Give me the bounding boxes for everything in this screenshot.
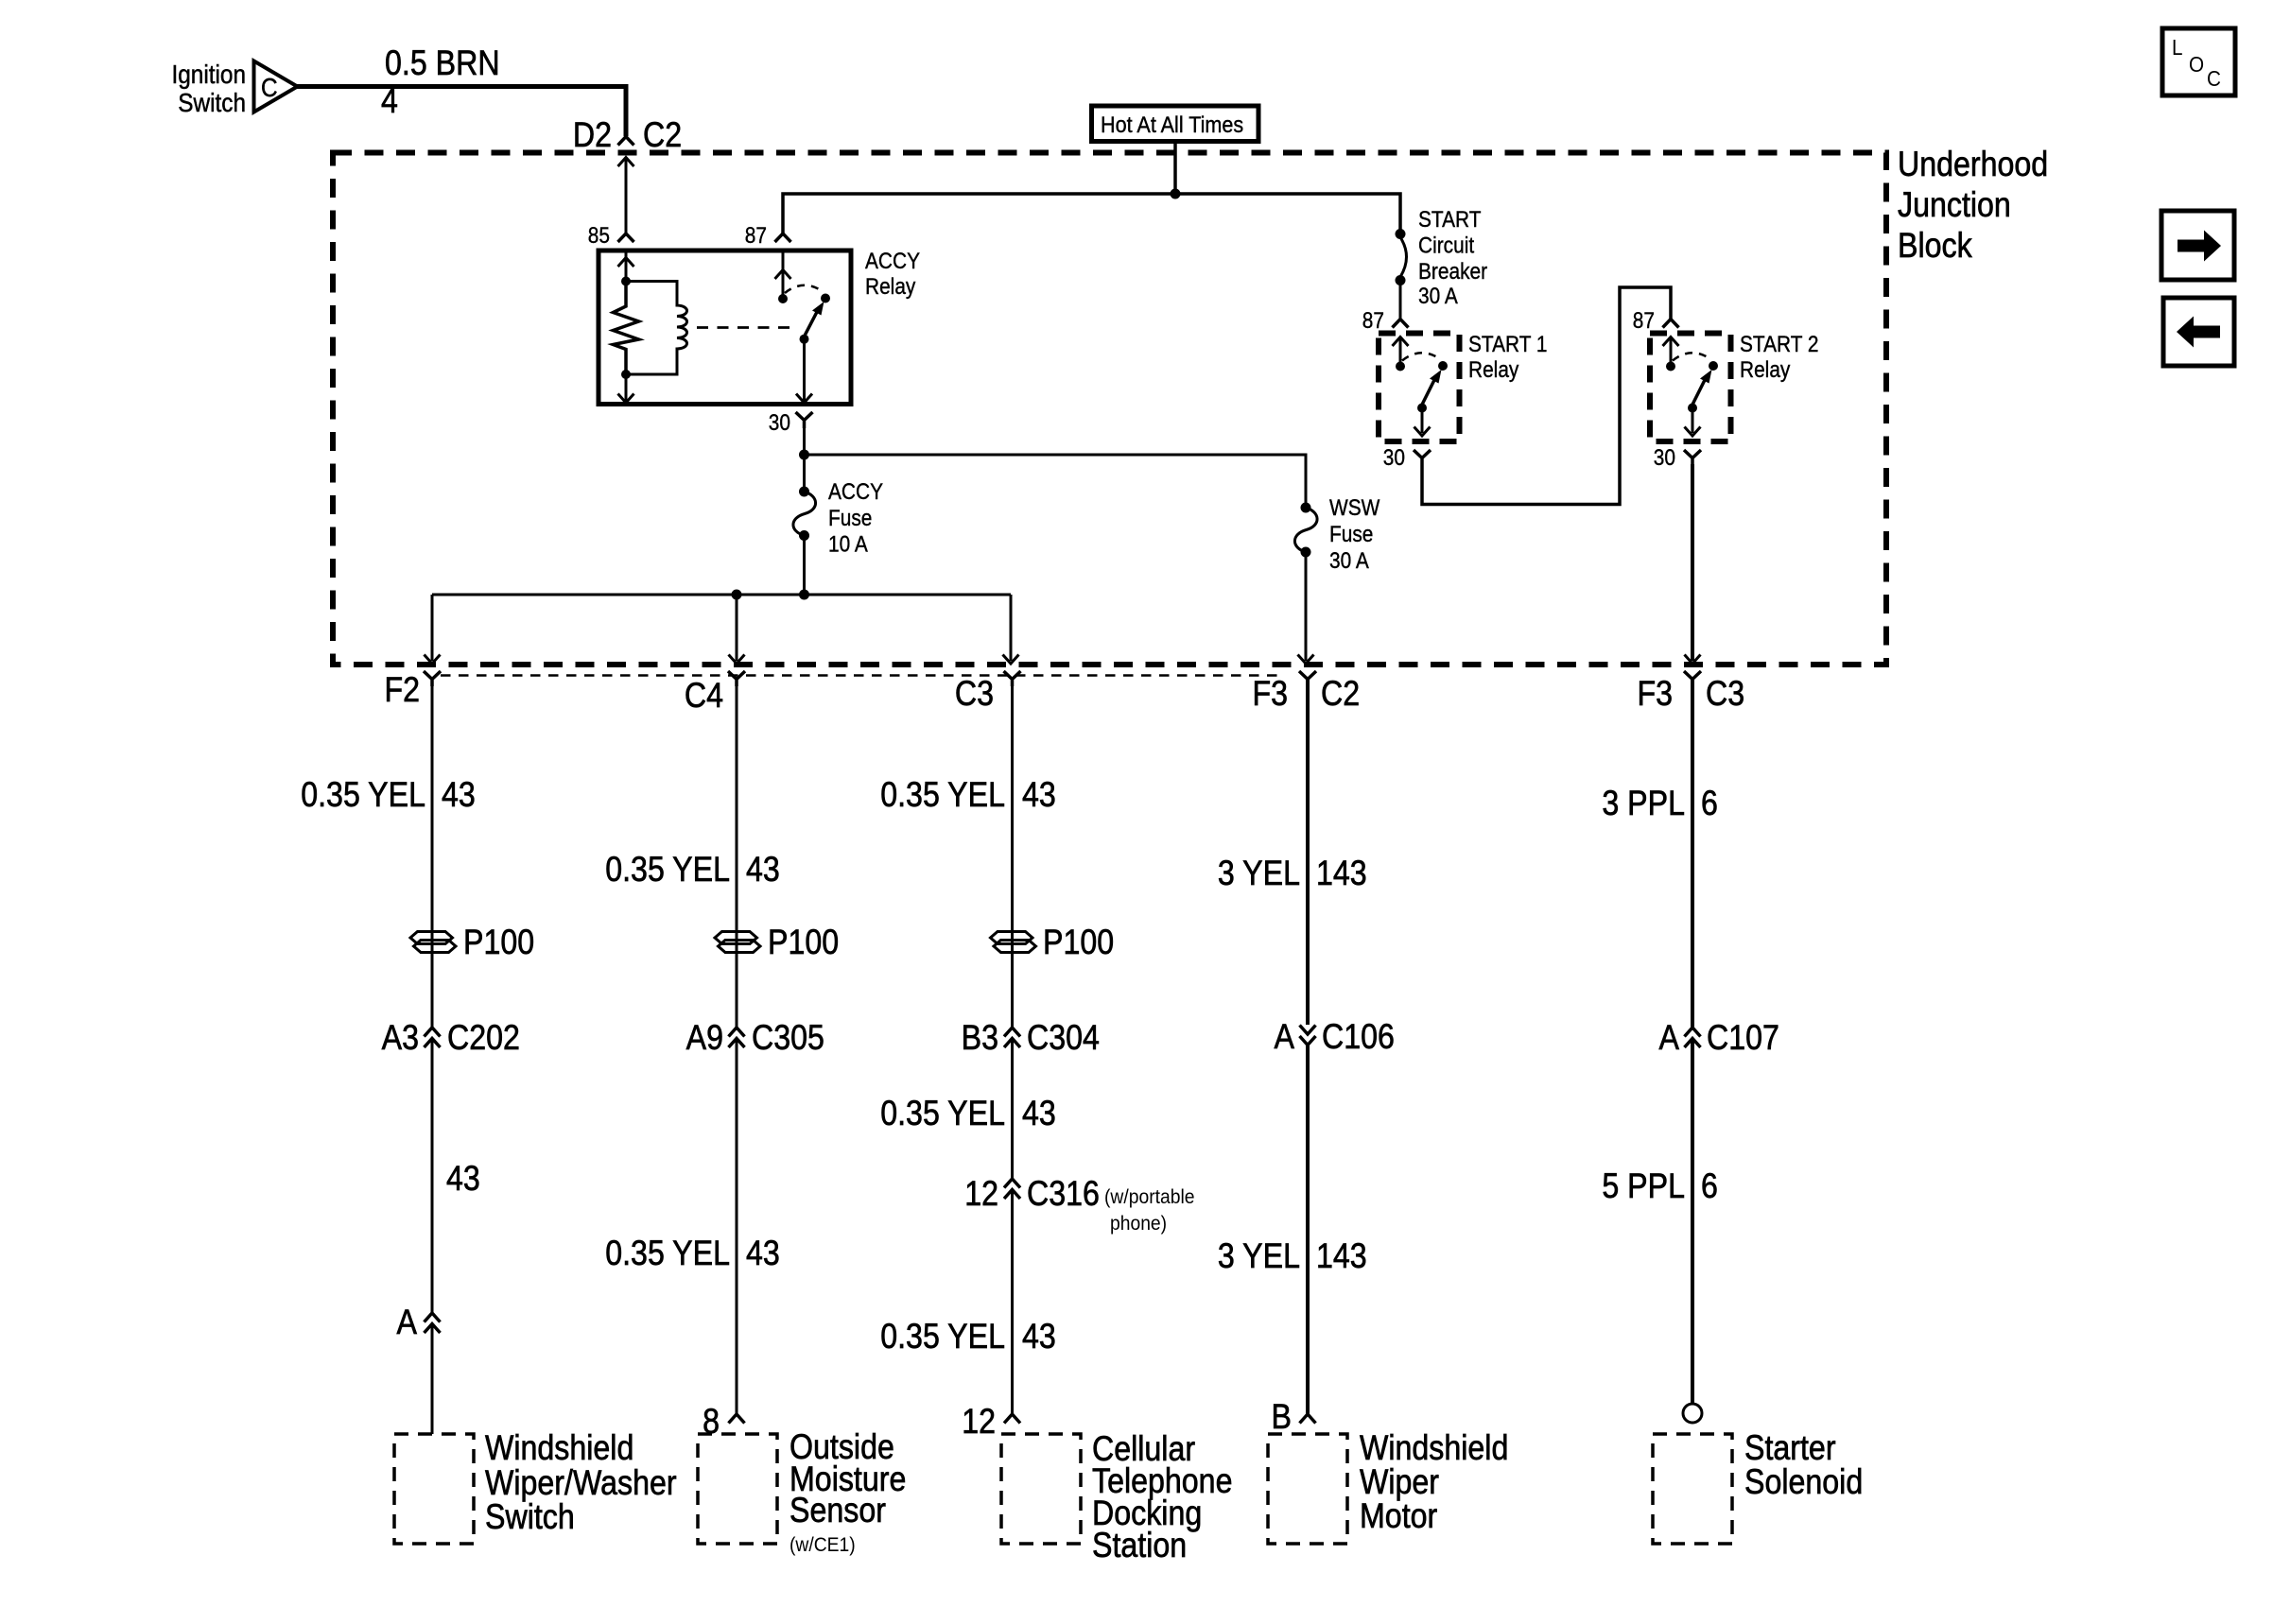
wire branch C3 with down arrow: [1010, 595, 1013, 661]
connector 30 half symbol (START2): [1684, 450, 1701, 464]
svg-text:Starter: Starter: [1744, 1429, 1836, 1468]
START1 pin 87 internal arrow up: [1399, 337, 1402, 367]
label F3 (C3): [1637, 675, 1673, 714]
label 43 (col1): [442, 776, 476, 815]
label 87 (START 1): [1362, 308, 1384, 334]
svg-text:0.5 BRN: 0.5 BRN: [385, 44, 500, 83]
svg-text:Relay: Relay: [1740, 357, 1791, 383]
label C4: [685, 677, 723, 716]
svg-text:43: 43: [1022, 1095, 1056, 1133]
junction dot distribution center: [799, 590, 809, 600]
svg-text:Sensor: Sensor: [789, 1492, 886, 1530]
label F3 (C2): [1252, 675, 1288, 714]
svg-text:B3: B3: [962, 1019, 998, 1058]
svg-text:30 A: 30 A: [1329, 548, 1369, 574]
label C2: [643, 116, 682, 155]
svg-text:F3: F3: [1637, 675, 1673, 714]
wire 0.5 BRN ckt 4 from ignition switch: [297, 87, 626, 137]
label 85: [588, 223, 610, 249]
svg-text:C: C: [2207, 66, 2221, 91]
svg-text:10 A: 10 A: [828, 531, 868, 557]
connector F3/C3 half symbol: [1684, 671, 1701, 686]
svg-text:43: 43: [1022, 1318, 1056, 1356]
svg-text:C2: C2: [1321, 675, 1360, 714]
svg-text:C316: C316: [1027, 1175, 1100, 1214]
svg-text:O: O: [2189, 52, 2204, 77]
label 8: [703, 1403, 720, 1442]
ACCY fuse symbol: [799, 487, 809, 497]
svg-text:F3: F3: [1252, 675, 1288, 714]
connector C3 half symbol: [1004, 671, 1021, 686]
ACCY relay box: [599, 251, 851, 405]
svg-text:ACCY: ACCY: [828, 479, 883, 505]
connector A9/C305 double chevron: [729, 1028, 745, 1047]
relay switch pin 87 wire with up arrow: [782, 251, 785, 299]
wire breaker to START1 87: [1399, 281, 1402, 320]
connector F2 half symbol: [424, 671, 441, 686]
label 30 (START2): [1654, 445, 1675, 471]
dashed travel arc (START1 switch): [1402, 353, 1441, 360]
START1 contact dot 87: [1396, 362, 1405, 371]
svg-text:6: 6: [1701, 785, 1718, 823]
label Starter Solenoid: [1744, 1429, 1836, 1468]
connector 30 half symbol (START1): [1414, 450, 1431, 464]
svg-text:3 YEL: 3 YEL: [1218, 855, 1300, 893]
junction dot coil bottom: [621, 370, 631, 379]
cellular telephone docking station dashed box: [1001, 1434, 1081, 1544]
label C202: [447, 1019, 520, 1058]
wire from ACCY relay 30: [803, 428, 806, 492]
svg-text:12: 12: [964, 1175, 998, 1214]
label 43 (col1 lower): [446, 1160, 480, 1199]
svg-text:12: 12: [962, 1403, 996, 1442]
wire hot feed down from Hot At All Times: [1173, 142, 1177, 195]
svg-text:30 A: 30 A: [1418, 284, 1458, 309]
splice P100 (col3): [991, 932, 1036, 953]
label 87 (ACCY relay): [745, 223, 767, 249]
junction dot distribution left: [732, 590, 742, 600]
label F2: [384, 671, 420, 710]
svg-text:phone): phone): [1110, 1213, 1167, 1235]
label A9: [686, 1019, 723, 1058]
label 4: [381, 82, 398, 121]
windshield wiper motor dashed box: [1268, 1434, 1347, 1544]
dashed travel arc (START2 switch): [1673, 353, 1711, 360]
label Outside Moisture Sensor (w/CE1): [789, 1428, 894, 1467]
next-page arrow box: [2161, 211, 2234, 280]
label C107: [1707, 1019, 1779, 1058]
svg-text:WSW: WSW: [1329, 495, 1380, 521]
label C2 (wiper feed): [1321, 675, 1360, 714]
label 3 YEL (col4): [1218, 855, 1300, 893]
svg-text:87: 87: [745, 223, 767, 249]
wire fused ACCY distribution: [432, 594, 1011, 596]
switch pivot dot (START1): [1417, 404, 1427, 413]
svg-text:3 PPL: 3 PPL: [1602, 785, 1685, 823]
svg-text:0.35 YEL: 0.35 YEL: [605, 851, 730, 890]
svg-text:43: 43: [446, 1160, 480, 1199]
label 143 (col4): [1316, 855, 1367, 893]
label START 2 Relay: [1740, 332, 1819, 357]
svg-text:L: L: [2172, 35, 2183, 60]
switch contact dot 87: [778, 294, 788, 303]
wire column F3/C2 upper segment: [1306, 680, 1310, 1026]
label 3 PPL (col5): [1602, 785, 1685, 823]
svg-text:START: START: [1418, 207, 1482, 233]
svg-text:5 PPL: 5 PPL: [1602, 1167, 1685, 1206]
wire branch F2 with down arrow: [431, 595, 434, 661]
previous-page arrow box: [2163, 298, 2234, 366]
windshield wiper/washer switch dashed box: [394, 1434, 474, 1544]
splice P100 (col2): [715, 932, 760, 953]
svg-text:C2: C2: [643, 116, 682, 155]
svg-text:A9: A9: [686, 1019, 723, 1058]
svg-text:A: A: [1659, 1019, 1680, 1058]
START1 switch output wire with down arrow: [1421, 408, 1424, 434]
label START Circuit Breaker 30 A: [1418, 207, 1482, 233]
starter solenoid dashed box: [1653, 1434, 1732, 1544]
wire branch to WSW fuse: [805, 455, 1307, 508]
connector C4 half symbol: [728, 671, 745, 686]
svg-text:START 1: START 1: [1468, 332, 1548, 357]
svg-text:Fuse: Fuse: [828, 506, 872, 531]
svg-text:Station: Station: [1092, 1527, 1187, 1565]
svg-text:0.35 YEL: 0.35 YEL: [880, 776, 1005, 815]
switch arm with arrowhead (ACCY relay): [805, 311, 818, 337]
label C304: [1027, 1019, 1100, 1058]
outside moisture sensor dashed box: [698, 1434, 777, 1544]
label A (C106): [1275, 1018, 1295, 1057]
wire START2 30 down to block edge with arrow: [1691, 464, 1694, 661]
label 6 (col5 lower): [1701, 1167, 1718, 1206]
label 12 (docking station): [962, 1403, 996, 1442]
wire column C4 upper segment: [736, 680, 738, 1028]
svg-text:Circuit: Circuit: [1418, 233, 1475, 258]
svg-text:A3: A3: [382, 1019, 419, 1058]
svg-text:C202: C202: [447, 1019, 520, 1058]
svg-text:C107: C107: [1707, 1019, 1779, 1058]
svg-text:0.35 YEL: 0.35 YEL: [880, 1318, 1005, 1356]
label A (C107): [1659, 1019, 1680, 1058]
svg-text:Wiper: Wiper: [1360, 1463, 1439, 1502]
svg-text:143: 143: [1316, 1237, 1367, 1276]
switch arm with arrowhead (START2): [1692, 379, 1706, 405]
relay pin 85 internal arrow up: [625, 252, 628, 282]
svg-text:A: A: [1275, 1018, 1295, 1057]
junction dot hot feed: [1171, 189, 1181, 199]
ring terminal (starter solenoid): [1683, 1404, 1702, 1423]
wire START1 30 to START2 87: [1422, 287, 1671, 505]
svg-text:P100: P100: [768, 924, 839, 962]
relay coil (ACCY relay): [626, 282, 687, 375]
svg-text:Relay: Relay: [1468, 357, 1519, 383]
svg-text:Junction: Junction: [1898, 186, 2011, 225]
label 43 (col3 lower): [1022, 1318, 1056, 1356]
svg-text:43: 43: [746, 851, 780, 890]
label 12 (C316): [964, 1175, 998, 1214]
splice P100 (col1): [410, 932, 456, 953]
wire column F2 lower segment: [431, 1324, 434, 1434]
switch pivot dot (START2): [1688, 404, 1697, 413]
label P100 (col2): [768, 924, 839, 962]
connector 87 half symbol (START 1 relay): [1393, 320, 1409, 328]
label START 1 Relay: [1468, 332, 1548, 357]
svg-text:Wiper/Washer: Wiper/Washer: [485, 1464, 677, 1503]
connector F3/C2 half symbol: [1299, 671, 1316, 686]
label 87 (START 2): [1633, 308, 1655, 334]
connector A/C106 double chevron down: [1300, 1026, 1316, 1045]
START2 switch output wire with down arrow: [1692, 408, 1694, 434]
label ACCY Fuse 10 A: [828, 479, 883, 505]
svg-text:C3: C3: [1706, 675, 1744, 714]
svg-text:Windshield: Windshield: [1360, 1429, 1508, 1468]
svg-text:Switch: Switch: [178, 87, 246, 117]
connector 87 half symbol (ACCY relay): [775, 233, 791, 242]
label Windshield Wiper Motor: [1360, 1429, 1508, 1468]
svg-text:B: B: [1272, 1398, 1292, 1437]
wire ACCY fuse to distribution: [803, 536, 806, 596]
label 5 PPL (col5 lower): [1602, 1167, 1685, 1206]
svg-text:Solenoid: Solenoid: [1744, 1463, 1863, 1502]
label ACCY Relay: [865, 249, 920, 274]
svg-text:P100: P100: [463, 924, 534, 962]
label 0.35 YEL (col2 lower): [605, 1235, 730, 1273]
label (w/portable phone): [1104, 1186, 1194, 1208]
wire column C3 lower segment: [1011, 1190, 1014, 1414]
label 6 (col5): [1701, 785, 1718, 823]
label 43 (col2 lower): [746, 1235, 780, 1273]
thin dashed connector line: [441, 674, 1285, 677]
svg-text:Switch: Switch: [485, 1498, 575, 1537]
label C106: [1322, 1018, 1395, 1057]
underhood junction block dashed border: [333, 153, 1886, 665]
svg-text:87: 87: [1633, 308, 1655, 334]
connector A3/C202 double chevron: [425, 1028, 441, 1047]
connector 87 half symbol (START 2 relay): [1663, 320, 1679, 328]
svg-text:0.35 YEL: 0.35 YEL: [880, 1095, 1005, 1133]
svg-text:A: A: [397, 1304, 418, 1342]
label 43 (col3): [1022, 776, 1056, 815]
START1 contact dot NO: [1438, 361, 1448, 371]
svg-text:Ignition: Ignition: [171, 59, 246, 89]
svg-text:(w/portable: (w/portable: [1104, 1186, 1194, 1208]
label 30 (ACCY relay): [769, 410, 790, 436]
label 3 YEL (col4 lower): [1218, 1237, 1300, 1276]
START2 contact dot 87: [1666, 362, 1675, 371]
resistor (ACCY relay): [614, 282, 639, 375]
svg-text:43: 43: [442, 776, 476, 815]
label B3: [962, 1019, 998, 1058]
svg-text:F2: F2: [384, 671, 420, 710]
LOC legend box: [2162, 28, 2235, 95]
START 1 relay dashed box: [1379, 334, 1460, 442]
connector D2/C2 half symbol: [618, 137, 634, 146]
label 0.35 YEL (col3 lower): [880, 1318, 1005, 1356]
wire column F3/C2 lower segment: [1306, 1045, 1310, 1414]
connector A double chevron (wiper switch): [425, 1313, 441, 1333]
svg-text:(w/CE1): (w/CE1): [789, 1534, 856, 1556]
svg-text:4: 4: [381, 82, 398, 121]
dashed actuation link (coil to switch): [697, 326, 796, 329]
junction dot 30 branch: [799, 450, 809, 460]
label A3: [382, 1019, 419, 1058]
wire branch C4 with down arrow: [736, 595, 738, 661]
svg-text:Breaker: Breaker: [1418, 259, 1488, 285]
label Underhood Junction Block: [1898, 146, 2048, 184]
connector 12 chevron (docking station): [1004, 1414, 1020, 1424]
switch arm with arrowhead (START1): [1422, 379, 1435, 405]
label C3 (starter feed): [1706, 675, 1744, 714]
svg-text:D2: D2: [573, 116, 612, 155]
svg-text:3 YEL: 3 YEL: [1218, 1237, 1300, 1276]
connector B chevron (wiper motor): [1300, 1414, 1316, 1424]
svg-text:C304: C304: [1027, 1019, 1100, 1058]
label 0.35 YEL (col1): [301, 776, 425, 815]
Hot At All Times box: [1092, 106, 1259, 142]
connector 12/C316 double chevron: [1004, 1179, 1020, 1199]
wire WSW fuse down to block edge with arrow: [1305, 552, 1308, 661]
svg-text:Motor: Motor: [1360, 1497, 1437, 1536]
wire column F3/C3 lower segment: [1691, 1039, 1694, 1404]
svg-text:C3: C3: [955, 675, 994, 714]
svg-text:Underhood: Underhood: [1898, 146, 2048, 184]
svg-text:143: 143: [1316, 855, 1367, 893]
wire column F2 upper segment: [431, 680, 434, 1028]
START2 pin 87 internal arrow up: [1670, 337, 1673, 367]
label 43 (col3 mid): [1022, 1095, 1056, 1133]
junction dot coil top: [621, 277, 631, 286]
svg-text:0.35 YEL: 0.35 YEL: [301, 776, 425, 815]
label A (wiper switch): [397, 1304, 418, 1342]
label 0.35 YEL (col3): [880, 776, 1005, 815]
connector 85 half symbol: [618, 233, 634, 242]
label 43 (col2): [746, 851, 780, 890]
wire column C3 upper segment: [1011, 680, 1014, 1028]
svg-text:Relay: Relay: [865, 274, 916, 300]
switch output wire with down arrow: [803, 339, 806, 401]
label WSW Fuse 30 A: [1329, 495, 1380, 521]
svg-text:6: 6: [1701, 1167, 1718, 1206]
svg-text:Block: Block: [1898, 227, 1972, 266]
svg-text:START 2: START 2: [1740, 332, 1819, 357]
wire column C3 second segment: [1011, 1039, 1014, 1179]
connector B3/C304 double chevron: [1004, 1028, 1020, 1047]
switch contact dot NO: [821, 294, 830, 303]
wire column C4 lower segment: [736, 1039, 738, 1414]
START circuit breaker symbol: [1396, 229, 1406, 239]
connector A/C107 double chevron: [1685, 1028, 1701, 1047]
wire column F2 middle segment: [431, 1039, 434, 1313]
label Ignition Switch: [171, 59, 246, 89]
svg-text:ACCY: ACCY: [865, 249, 920, 274]
label C3: [955, 675, 994, 714]
connector 8 chevron (moisture sensor): [729, 1414, 745, 1424]
label 0.5 BRN: [385, 44, 500, 83]
svg-text:C4: C4: [685, 677, 723, 716]
wire column F3/C3 upper segment: [1691, 680, 1694, 1028]
START 2 relay dashed box: [1650, 334, 1731, 442]
label 143 (col4 lower): [1316, 1237, 1367, 1276]
label 0.35 YEL (col2): [605, 851, 730, 890]
svg-text:Windshield: Windshield: [485, 1429, 633, 1468]
label C316: [1027, 1175, 1100, 1214]
label P100 (col3): [1043, 924, 1114, 962]
label Cellular Telephone Docking Station: [1092, 1430, 1195, 1469]
label Windshield Wiper/Washer Switch: [485, 1429, 633, 1468]
label D2: [573, 116, 612, 155]
svg-text:0.35 YEL: 0.35 YEL: [605, 1235, 730, 1273]
START2 contact dot NO: [1709, 361, 1718, 371]
label P100 (col1): [463, 924, 534, 962]
dashed travel arc (ACCY relay switch): [785, 285, 824, 293]
label 0.35 YEL (col3 mid): [880, 1095, 1005, 1133]
switch pivot dot (ACCY relay): [800, 335, 809, 344]
svg-text:C305: C305: [752, 1019, 824, 1058]
svg-text:30: 30: [769, 410, 790, 436]
off-page triangle symbol C (Ignition Switch feed): [254, 61, 298, 112]
svg-text:30: 30: [1654, 445, 1675, 471]
label 30 (START1): [1383, 445, 1405, 471]
wire power busbar: [783, 194, 1400, 234]
relay pin down arrow to bottom edge: [625, 374, 628, 401]
connector 30 half symbol (ACCY relay): [796, 412, 813, 428]
label C305: [752, 1019, 824, 1058]
svg-text:P100: P100: [1043, 924, 1114, 962]
label B: [1272, 1398, 1292, 1437]
svg-text:C: C: [261, 72, 278, 102]
svg-text:43: 43: [1022, 776, 1056, 815]
svg-text:87: 87: [1362, 308, 1384, 334]
svg-text:Hot At All Times: Hot At All Times: [1101, 112, 1243, 137]
svg-text:43: 43: [746, 1235, 780, 1273]
svg-text:Fuse: Fuse: [1329, 522, 1373, 547]
svg-text:30: 30: [1383, 445, 1405, 471]
WSW fuse symbol: [1301, 503, 1311, 513]
svg-text:85: 85: [588, 223, 610, 249]
svg-text:C106: C106: [1322, 1018, 1395, 1057]
wire D2 into junction block with up arrow: [625, 157, 628, 233]
